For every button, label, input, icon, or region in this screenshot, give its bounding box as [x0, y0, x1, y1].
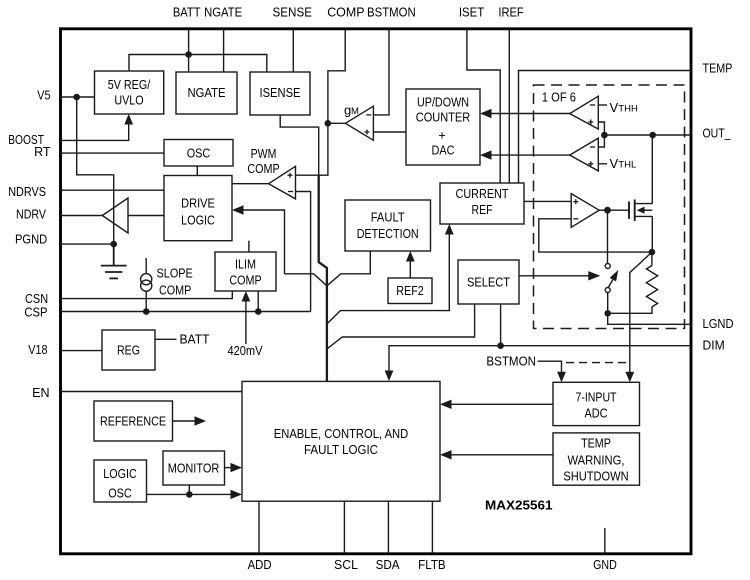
svg-text:REF: REF [472, 203, 493, 217]
block ENABLE, CONTROL, AND FAULT LOGIC [242, 381, 440, 501]
wire VTHL comparator output arrow to UP/DOWN [491, 154, 570, 156]
junction dot OUT drain node [649, 132, 656, 139]
svg-text:SDA: SDA [376, 558, 401, 572]
svg-text:WARNING,: WARNING, [568, 453, 625, 467]
comparator VTHH [570, 96, 599, 129]
wire VTHH minus stub [598, 104, 607, 106]
wire SCL stub [343, 501, 345, 553]
wire OSC to DRIVE LOGIC [196, 166, 198, 176]
svg-text:+: + [438, 128, 445, 142]
svg-text:OSC: OSC [108, 487, 132, 501]
junction dot PGND node [110, 241, 117, 248]
wire MONITOR to ENABLE arrow [225, 467, 233, 469]
svg-text:DAC: DAC [432, 143, 455, 157]
comparator PWM COMP [269, 166, 296, 199]
wire CURRENT REF output to LED op-amp [524, 200, 571, 202]
wire MONITOR bottom to LOGIC OSC wire [188, 485, 190, 494]
svg-text:MAX25561: MAX25561 [485, 499, 553, 513]
svg-text:UVLO: UVLO [114, 94, 144, 108]
outer IC boundary box [61, 29, 692, 554]
ground PGND symbol [101, 244, 127, 278]
bus wire fault signals down to ENABLE logic [319, 175, 327, 381]
junction dot op-amp output [604, 207, 611, 214]
block 7-INPUT ADC [553, 382, 640, 425]
junction dot CSP ILIM node [255, 308, 262, 315]
svg-text:SHUTDOWN: SHUTDOWN [563, 469, 628, 483]
svg-text:V: V [610, 100, 619, 115]
svg-text:OUT_: OUT_ [703, 127, 732, 141]
svg-text:NGATE: NGATE [204, 6, 242, 20]
svg-text:THL: THL [618, 160, 636, 171]
svg-text:5V REG/: 5V REG/ [108, 78, 151, 92]
svg-text:LOGIC: LOGIC [181, 213, 215, 227]
arrowhead DIM into ENABLE top [385, 371, 394, 382]
wire OUT_ pin [604, 134, 691, 136]
wire GND stub [604, 528, 606, 553]
wire V18 pin to REG [60, 350, 102, 352]
svg-text:V: V [610, 156, 619, 171]
op-amp LED current regulator [571, 194, 599, 228]
svg-text:CSP: CSP [24, 306, 47, 320]
switch DIM select [605, 210, 618, 313]
svg-text:PGND: PGND [15, 232, 47, 246]
junction dot OUT comparator node [601, 132, 608, 139]
wire BSTMON pin down to gm minus input [373, 30, 389, 115]
junction dot node A [325, 120, 332, 127]
svg-text:LOGIC: LOGIC [103, 467, 137, 481]
wire node A down to PWM comp plus [296, 123, 328, 175]
wire CSP pin to PWM comp minus [60, 311, 311, 313]
svg-text:FAULT LOGIC: FAULT LOGIC [304, 443, 378, 457]
wire V5 rail down to PGND node [77, 97, 114, 244]
wire VTHH plus to OUT node [598, 122, 604, 135]
svg-text:SELECT: SELECT [467, 275, 510, 289]
wire BATT pin down into NGATE box [188, 30, 190, 72]
wire IREF pin down to CURRENT REF [508, 30, 510, 183]
svg-text:MONITOR: MONITOR [168, 461, 220, 475]
svg-text:1 OF 6: 1 OF 6 [542, 90, 576, 104]
wire ADD stub [258, 501, 260, 553]
svg-text:ISENSE: ISENSE [260, 86, 301, 100]
wire op-amp output to MOSFET gate [599, 209, 629, 211]
resistor LED sense [608, 252, 658, 313]
wire V5 pin [60, 96, 95, 98]
svg-text:FAULT: FAULT [371, 210, 405, 224]
junction dot LOGIC OSC / MONITOR [186, 491, 193, 498]
wire ISET pin down to CURRENT REF [467, 30, 500, 183]
wire ILIM COMP output arrow into DRIVE LOGIC [243, 210, 285, 274]
svg-text:OSC: OSC [187, 146, 211, 160]
wire FLTB stub [431, 501, 433, 553]
block SELECT [458, 260, 519, 304]
wire REFERENCE output arrow [173, 420, 196, 422]
wire PWM comp output to DRIVE LOGIC [232, 183, 269, 185]
op-amp gm [345, 106, 373, 140]
junction dot slope comp on CSP [143, 308, 150, 315]
wire VTHL minus to OUT node [598, 135, 604, 147]
svg-text:BATT: BATT [173, 6, 201, 20]
wire CURRENT REF bus line merge [327, 234, 449, 324]
svg-text:V18: V18 [28, 343, 47, 357]
svg-text:TEMP: TEMP [703, 62, 733, 76]
voltage source 420mV into ILIM COMP [245, 301, 247, 344]
svg-text:NDRV: NDRV [16, 207, 47, 221]
block MONITOR [163, 451, 225, 485]
wire SELECT output arrow to switch [519, 275, 589, 277]
svg-text:LGND: LGND [703, 317, 734, 331]
svg-text:BATT: BATT [180, 333, 210, 347]
svg-text:DIM: DIM [703, 339, 725, 353]
wire LGND pin [608, 313, 691, 324]
svg-text:COMP: COMP [229, 274, 261, 288]
wire SDA stub [387, 501, 389, 553]
transistor LED driver MOSFET [629, 200, 652, 221]
svg-text:SCL: SCL [334, 558, 358, 572]
wire EN pin to ENABLE logic [60, 391, 242, 393]
svg-text:THH: THH [618, 104, 638, 115]
block ISENSE [250, 72, 310, 115]
wire branch from BATT to 5V REG and ISENSE [129, 55, 267, 73]
block REG [102, 330, 155, 370]
block TEMP WARNING, SHUTDOWN [553, 433, 640, 485]
svg-text:ILIM: ILIM [235, 258, 256, 272]
block OSC [164, 140, 233, 167]
wire ISENSE output down to PWM plus line [280, 115, 319, 175]
block LOGIC OSC [94, 460, 147, 502]
block NGATE [176, 72, 237, 114]
wire VTHH comparator output arrow to UP/DOWN [491, 113, 570, 115]
svg-text:TEMP: TEMP [581, 436, 611, 450]
svg-text:COMP: COMP [247, 162, 279, 176]
wire ILIM COMP output merge into bus [285, 274, 327, 286]
comparator VTHL [570, 138, 599, 171]
wire gm plus input to UP/DOWN COUNTER [373, 131, 406, 133]
wire MOSFET source down to sense node [651, 216, 653, 252]
svg-text:SLOPE: SLOPE [157, 267, 193, 281]
wire REF2 to FAULT DETECTION arrow [409, 261, 411, 278]
wire BSTMON to 7-INPUT ADC arrow [538, 361, 562, 372]
junction dot BATT node [185, 51, 192, 58]
buffer amp NDRV driver [102, 198, 128, 233]
svg-text:REF2: REF2 [396, 284, 424, 298]
wire COMP pin down to node A [328, 30, 345, 123]
wire 7-INPUT ADC to ENABLE arrow [451, 403, 553, 405]
svg-text:COMP: COMP [159, 284, 191, 298]
wire ILIM COMP to CSP node [257, 291, 259, 312]
svg-text:M: M [351, 106, 359, 117]
svg-text:IREF: IREF [498, 6, 524, 20]
wire PWM comp minus down to CSP [296, 192, 311, 312]
block DRIVE LOGIC [164, 176, 232, 241]
wire VTHL plus stub [598, 163, 607, 165]
svg-text:ENABLE, CONTROL, AND: ENABLE, CONTROL, AND [274, 427, 409, 441]
wire LOGIC OSC to ENABLE arrow [147, 493, 232, 495]
svg-text:NGATE: NGATE [188, 86, 226, 100]
current source SLOPE COMP [141, 258, 152, 312]
junction dot sense node [649, 249, 656, 256]
svg-text:COUNTER: COUNTER [416, 110, 471, 124]
wire DRIVE LOGIC to ILIM COMP [248, 241, 250, 252]
arrowhead into CURRENT REF [445, 224, 454, 235]
wire SELECT bottom merge into bus [327, 304, 475, 349]
block CURRENT REF [440, 183, 524, 224]
svg-text:BSTMON: BSTMON [486, 354, 536, 368]
svg-text:ISET: ISET [459, 6, 485, 20]
wire LED current sense down to 7-INPUT ADC arrow [630, 252, 652, 372]
block FAULT DETECTION [345, 200, 431, 251]
block U1 5V REG/UVLO [95, 71, 164, 114]
wire CSN pin to ILIM COMP [60, 291, 232, 299]
svg-text:REG: REG [117, 344, 140, 358]
block ILIM COMP [215, 252, 276, 291]
wire NGATE pin down [223, 30, 225, 72]
wire RT pin to OSC [60, 152, 164, 154]
svg-text:BSTMON: BSTMON [367, 6, 416, 20]
wire PGND pin [60, 243, 114, 245]
svg-text:GND: GND [593, 558, 617, 572]
dashed box 1 OF 6 LED channel [534, 85, 685, 329]
block REFERENCE [94, 401, 173, 441]
svg-text:UP/DOWN: UP/DOWN [417, 95, 469, 109]
wire TEMP WARNING to ENABLE arrow [451, 454, 553, 456]
wire BSTMON dashed link [566, 362, 629, 364]
svg-text:ADD: ADD [248, 558, 272, 572]
wire SELECT bottom to DIM line [500, 304, 502, 346]
wire MOSFET drain up to OUT node [651, 135, 653, 204]
wire TEMP pin to CURRENT REF [519, 71, 692, 184]
svg-text:COMP: COMP [327, 6, 364, 20]
svg-text:DETECTION: DETECTION [357, 227, 419, 241]
svg-text:FLTB: FLTB [418, 558, 446, 572]
arrowhead BOOST into 5V REG [124, 114, 133, 125]
svg-text:7-INPUT: 7-INPUT [576, 391, 617, 405]
wire BOOST pin up into 5V REG bottom [60, 124, 129, 140]
svg-text:420mV: 420mV [228, 344, 264, 358]
svg-text:NDRVS: NDRVS [8, 185, 46, 199]
wire op-amp feedback [539, 219, 652, 252]
wire gm output to node A [328, 122, 346, 124]
block UP/DOWN COUNTER + DAC [406, 89, 480, 165]
svg-text:EN: EN [32, 386, 49, 400]
wire SENSE pin down [292, 30, 294, 72]
wire NDRVS pin to DRIVE LOGIC [60, 189, 164, 191]
junction dot SELECT on DIM [497, 342, 504, 349]
svg-text:DRIVE: DRIVE [181, 196, 215, 210]
svg-text:RT: RT [34, 145, 51, 159]
svg-text:CURRENT: CURRENT [456, 187, 509, 201]
junction dot switch bottom node [604, 310, 611, 317]
svg-text:SENSE: SENSE [273, 6, 313, 20]
wire buffer output to DRIVE LOGIC [128, 215, 164, 217]
svg-text:REFERENCE: REFERENCE [100, 415, 166, 429]
svg-text:ADC: ADC [585, 407, 608, 421]
wire REG to BATT label [155, 338, 177, 340]
block REF2 [388, 278, 432, 304]
wire DIM pin down into ENABLE logic top [389, 346, 691, 371]
svg-text:CSN: CSN [25, 292, 48, 306]
wire NDRV pin to buffer tip [60, 215, 102, 217]
svg-text:PWM: PWM [251, 147, 277, 161]
svg-text:V5: V5 [37, 89, 50, 103]
junction dot V5 node [73, 94, 80, 101]
wire FAULT DETECTION output merge into bus [327, 251, 370, 286]
